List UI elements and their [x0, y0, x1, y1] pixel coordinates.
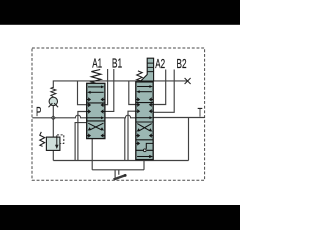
valve V2 position a: blocked stubs	[136, 98, 153, 101]
valve V2 position b: blocked stubs	[136, 134, 153, 137]
svg-text:B1: B1	[112, 57, 122, 71]
relief valve RV1 spring	[40, 132, 45, 147]
valve V2 neutral: blocked ports	[136, 103, 153, 106]
wire: T drop to return gallery	[188, 118, 190, 161]
directional valve V1 body	[87, 83, 105, 138]
wire: V1 bottom drain drop	[91, 139, 93, 170]
check valve CV1 seat	[49, 103, 59, 107]
valve V2 float position: link path	[146, 143, 153, 149]
wire: pressure gallery (check valve to plug X)	[53, 81, 187, 88]
valve V2 return spring	[137, 71, 143, 81]
relief valve RV1 internal arrow	[56, 135, 58, 145]
check valve CV1 spring	[51, 87, 56, 97]
valve V2 float position: cross line	[136, 149, 153, 151]
valve V2 neutral: bypass arrow	[136, 117, 150, 119]
valve V1 divider 2	[87, 120, 105, 122]
tank symbol	[115, 170, 119, 179]
valve V2 divider 1	[136, 102, 153, 104]
valve V1 divider 1	[87, 102, 105, 104]
wire: valve V1 lower left port	[75, 123, 87, 161]
valve V2 float position: arrow right	[137, 156, 150, 158]
wire: bypass between V1 and V2 with branch to tank	[105, 115, 136, 118]
valve V2 position b: crossed arrows	[137, 124, 151, 132]
enclosure dashed border	[32, 48, 205, 180]
valve V2 position a: arrow left	[139, 91, 152, 93]
wire: B2 work line	[153, 70, 174, 113]
valve V1 neutral: bypass arrow	[87, 117, 102, 119]
check valve CV1 ball	[49, 97, 57, 105]
wire: valve V2 left return port	[128, 111, 136, 160]
svg-text:A1: A1	[92, 57, 102, 71]
valve V2 detent notches	[147, 63, 153, 72]
valve V1 position b: crossed arrows	[88, 123, 103, 130]
valve V2 float position: junction circle	[143, 149, 146, 152]
directional valve V2 body	[136, 82, 153, 160]
node: P junction diamond	[51, 116, 55, 120]
valve V2 position a: arrow right	[137, 86, 150, 88]
wire: A2 work line	[153, 70, 166, 105]
valve V1 neutral: blocked ports	[87, 104, 105, 107]
plug X on gallery end	[185, 78, 191, 84]
valve V1 position a: arrow right	[88, 86, 102, 88]
valve V1 position a: arrow left	[90, 91, 104, 93]
svg-text:T: T	[198, 107, 203, 120]
wire: lower drain line to tank	[92, 169, 144, 171]
wire: valve V1 left return port	[78, 112, 87, 161]
valve V2 divider 3	[136, 139, 153, 141]
relief valve RV1 body	[46, 137, 60, 150]
letterbox bottom bar	[0, 205, 240, 230]
letterbox top bar	[0, 0, 240, 25]
valve V1 position b: blocked stubs	[87, 134, 105, 137]
wire: return gallery line	[53, 160, 188, 162]
wire: gallery drop to valve V2 P port	[129, 81, 136, 105]
valve V2 float position: blocked stub	[136, 142, 140, 145]
svg-text:A2: A2	[155, 57, 165, 71]
valve V2 divider 2	[136, 121, 153, 123]
valve V2 detent	[141, 58, 154, 81]
valve V1 return spring	[91, 70, 101, 84]
svg-text:B2: B2	[177, 57, 187, 71]
wire: T outlet line	[153, 117, 204, 119]
wire: gallery drop to valve V1 P port	[78, 81, 87, 105]
wire: P inlet line	[32, 115, 86, 118]
wire: V2 bottom drain drop	[143, 160, 145, 170]
valve V1 position a: blocked stubs	[87, 98, 105, 101]
wire: check valve to P junction to relief valve	[52, 106, 54, 161]
wire: A1 work line	[105, 69, 108, 105]
relief valve RV1 pilot dashed line	[57, 135, 64, 144]
wire: B1 work line	[105, 69, 114, 111]
